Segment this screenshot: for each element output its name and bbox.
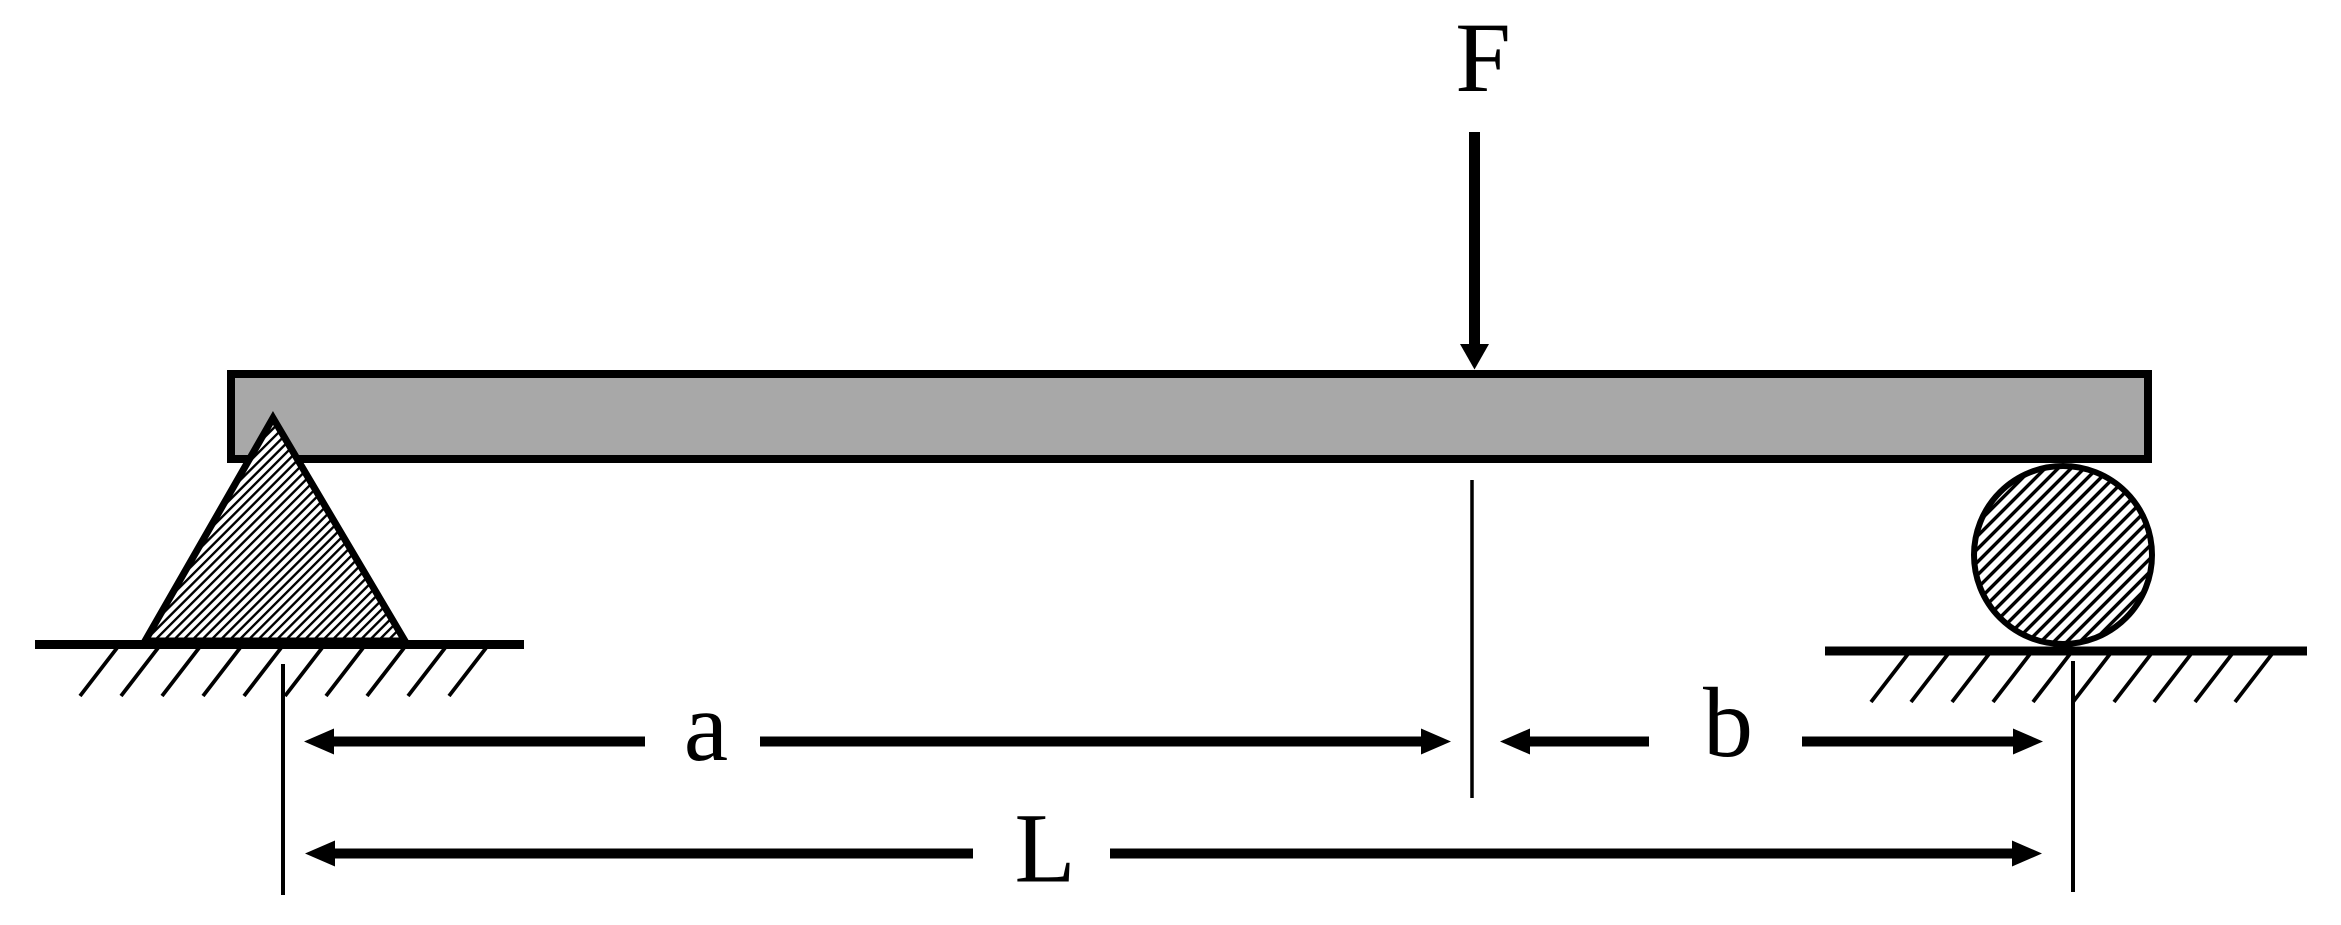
roller support circle (right): [1974, 466, 2152, 644]
force F arrow: [1460, 132, 1489, 370]
left ground line: [35, 640, 524, 649]
right ground line: [1825, 647, 2307, 656]
beam: [231, 374, 2148, 459]
pin support triangle (left): [145, 418, 405, 641]
svg-text:a: a: [684, 671, 728, 782]
extension line middle (under F): [1470, 480, 1474, 798]
right ground hatching: [1871, 654, 2272, 702]
svg-text:b: b: [1703, 667, 1753, 778]
extension line right: [2071, 661, 2075, 892]
dimension a arrows: [304, 729, 1451, 755]
dimension b arrows: [1500, 729, 2043, 755]
svg-text:F: F: [1455, 2, 1511, 113]
extension line left: [281, 664, 285, 895]
left ground hatching: [80, 648, 486, 696]
dimension L arrows: [305, 841, 2042, 867]
svg-text:L: L: [1014, 793, 1075, 904]
